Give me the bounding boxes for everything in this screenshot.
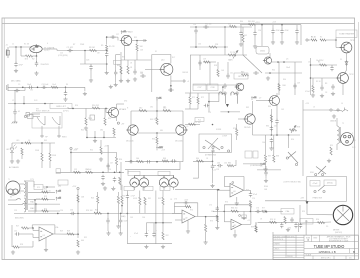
wire u5 out [242,223,251,225]
trim arrow [291,125,296,133]
terminal T9 [212,146,214,148]
wire bus y162 [125,161,180,163]
wire stage wire y50.5 [57,50,107,52]
ground G1 [14,69,18,73]
resistor R19 [242,74,249,76]
winding T100 secondary [24,198,26,212]
T100 core lines [26,182,27,210]
capacitor C25 [253,71,259,74]
resistor R71 [205,224,207,232]
wire v x250 dn [250,190,252,192]
wire r66 dn [139,205,141,214]
svg-text:Q7: Q7 [259,97,261,99]
node n35 [288,134,290,136]
svg-text:GAIN: GAIN [228,59,233,62]
svg-text:R7: R7 [73,44,75,46]
border inner top line [2,23,355,25]
wire t100 w2 [20,190,25,192]
wire c48 up [145,223,147,233]
svg-text:C30: C30 [60,210,63,212]
wire bus y137 [86,136,116,138]
svg-text:MPSA18: MPSA18 [119,108,126,111]
wire c52b dn [265,175,267,178]
wire v x121 d [120,162,122,190]
box bypass switch box [199,134,232,152]
wire x115 top [116,54,121,56]
resistor R69 [162,232,164,240]
svg-text:2K2: 2K2 [163,107,166,109]
capacitor C42 [299,223,302,229]
svg-text:RING: RING [62,137,67,139]
wire r65 dn [117,204,119,214]
wire u2 in2 [175,219,182,221]
resistor R42 [189,123,196,125]
wire r60 up [97,192,99,196]
wire fsw v2 [58,126,60,134]
wire bus y135 [253,134,301,136]
node n y108 a [72,108,74,110]
wire q5 coll [269,53,271,57]
node mic node c [65,87,67,89]
svg-text:C58: C58 [216,169,219,171]
ground G12 [223,91,227,95]
svg-text:2K2: 2K2 [100,130,103,132]
svg-text:R82: R82 [246,107,249,109]
boxed label note f2 [253,151,258,158]
wire v x212 dn [212,151,214,165]
svg-text:VU: VU [305,221,308,223]
svg-text:R52: R52 [90,149,93,151]
resistor R26 [41,153,43,161]
wire jack wire [332,109,342,112]
node n48 [217,189,219,191]
wire drop to C1 [15,47,17,63]
svg-text:22uF/16V: 22uF/16V [41,64,50,66]
capacitor C32c [171,159,177,162]
resistor R14 [242,34,244,42]
terminal T15 [315,174,317,176]
svg-text:SHT 1 OF 1: SHT 1 OF 1 [321,258,331,260]
capacitor C8 [41,86,47,89]
border inner left line [3,18,5,260]
node mic node a [22,87,24,89]
wire r71 dn [205,232,207,240]
node n23 [103,137,105,139]
wire bus y243 [127,243,172,245]
wire r8 up [104,108,106,117]
ground G11 [133,77,137,81]
node n32 [212,161,214,163]
svg-text:R96: R96 [316,219,319,221]
wire t4 wire [308,39,311,41]
transistor Q10 [176,125,188,135]
ground G17b [295,40,299,44]
potentiometer VR1a [130,175,139,187]
terminal T4 [306,39,308,41]
node n22 [94,137,96,139]
wire c22 up [254,25,256,32]
node n43 [77,233,79,235]
wire sec wire 1 [24,180,34,182]
capacitor C40 [280,223,283,229]
resistor R73 [249,201,251,208]
wire u4 fb left [223,177,225,187]
ground G28 [210,184,214,188]
node input node 1 [15,46,17,48]
ground G16 [271,40,275,44]
wire R1 to cathode [33,55,37,57]
capacitor C5b [114,70,117,76]
boxed label phantom note1 [310,181,320,187]
ground G35 [106,231,110,235]
svg-text:A2: A2 [234,224,236,227]
power arrow Vplus4 [56,190,62,194]
svg-text:R1 10: R1 10 [311,37,316,39]
wire bus y60 b [121,59,151,61]
capacitor C20 [235,83,238,89]
wire q13 emit [276,105,278,120]
svg-text:47uF: 47uF [134,233,138,235]
resistor R57 [42,210,49,212]
wire y165 link2 [234,165,236,167]
svg-text:R38: R38 [214,65,217,67]
svg-text:R27: R27 [16,226,19,228]
switch S3 lever [288,152,298,164]
node n37 [35,203,37,205]
capacitor C10 [64,91,67,97]
wire r76 up [255,222,257,225]
diagonal wire [243,55,262,73]
wire v x24 up [23,96,25,104]
wire loop left [151,55,153,93]
bypass lever 1 [205,138,220,150]
wire y110 f [303,109,330,111]
svg-text:604: 604 [81,240,84,242]
wire q8 top link [345,70,347,74]
capacitor C43 [70,212,76,215]
switch SW2a [16,199,21,200]
svg-text:R24: R24 [44,208,47,210]
resistor R53 [270,221,277,223]
wire q10 up [182,111,184,125]
resistor R51 [318,222,325,224]
ground G17 [280,40,284,44]
wire v x68 link [67,107,69,108]
svg-text:Q2 MPSA18: Q2 MPSA18 [122,31,133,34]
ground G24b [99,157,103,161]
wire bus y103 [8,103,53,105]
terminal T7 21v [70,147,72,149]
svg-text:R79: R79 [233,128,236,130]
wire q1 base link2 [106,112,108,114]
wire led dn2 [11,156,13,159]
svg-text:COMP: COMP [222,136,228,138]
node node y50 a [84,50,86,52]
resistor R61 [77,240,79,247]
wire rail x310 [310,58,312,95]
winding T101 secondary [337,126,339,144]
wire c49 up [153,223,155,233]
svg-text:Q3: Q3 [128,126,130,128]
wire r62 link3 [33,230,39,232]
terminal T5 [41,135,43,137]
wire y178 link [193,177,199,179]
terminal pin small 2 [239,215,241,217]
capacitor C50 [183,201,189,204]
svg-text:R26 10K: R26 10K [86,210,93,212]
capacitor C24 [280,29,283,35]
footswitch SW1b [52,116,60,125]
svg-text:R29: R29 [60,231,63,233]
ground G45 [235,201,239,205]
node n39 [77,213,79,215]
wire pot dn4 [173,187,175,190]
svg-text:R74: R74 [225,202,228,204]
svg-text:R99 1K: R99 1K [270,219,277,221]
wire loop y152 [71,151,117,153]
wire fb right h [197,203,199,217]
wire v x155 [155,191,157,244]
wire bus y161 [193,160,213,162]
svg-text:125M001-1 B: 125M001-1 B [318,250,335,254]
capacitor C33 [204,104,210,107]
node node y50 b [106,50,108,52]
svg-text:+9: +9 [187,81,189,83]
svg-text:ROCHESTER N.Y. 14608: ROCHESTER N.Y. 14608 [329,240,348,242]
wire top link y37 [107,36,118,38]
node n11b [281,24,283,26]
node n tail [156,161,158,163]
svg-text:Q5: Q5 [186,126,188,128]
svg-text:+: + [156,230,157,232]
wire q8 base wire [311,77,338,79]
wire v x303b [302,140,304,176]
capacitor C3 coupling [67,49,73,52]
svg-text:C41: C41 [230,73,233,75]
wire sw feed y204 [8,204,22,206]
terminal T20 [323,190,325,192]
ground G4b [114,83,118,87]
capacitor C49 [152,232,155,238]
wire reg up [335,38,337,41]
wire v x262 c [261,25,263,46]
svg-text:C74: C74 [252,198,255,200]
ground G18 [266,76,270,80]
resistor R55 [42,191,49,193]
svg-text:DIM IN INCH: DIM IN INCH [274,239,284,241]
wire bus y47 [190,46,228,48]
node node y64 [106,63,108,65]
relay arrow [226,104,229,107]
node n36 [34,199,36,201]
svg-text:R9 47K: R9 47K [109,46,116,48]
wire meter wire y215 [307,214,333,216]
svg-text:R72: R72 [201,97,204,99]
svg-text:R40: R40 [240,21,243,23]
svg-text:C35: C35 [198,44,201,46]
svg-text:R75 10K: R75 10K [194,122,201,124]
svg-text:R25: R25 [91,198,94,200]
capacitor C17 [198,60,201,66]
wire pot dn3 [163,187,165,190]
wire r9 dn [136,51,138,60]
wire c36 dn [276,124,278,135]
wire c34 dn [212,169,214,183]
node input node 2 [20,46,22,48]
svg-text:1/1: 1/1 [349,258,352,260]
footswitch SW1a [37,116,45,125]
ground G10 [126,79,130,83]
wire r65 up [117,192,119,196]
boxed label note f1 [245,151,252,158]
svg-text:.0047: .0047 [184,200,188,202]
tube V1 12AX7 [30,44,42,52]
capacitor C21 [239,31,242,37]
boxed label pot top label2 [143,186,153,190]
terminal T8 [203,146,205,148]
ground G3 [89,78,93,82]
ground G46 [233,233,237,237]
wire q12 base [238,118,243,120]
wire v x298 dn [297,222,299,232]
svg-text:R90: R90 [291,139,294,141]
resistor R54 [255,225,257,232]
svg-text:10uF: 10uF [124,221,128,223]
wire q2 out [132,40,147,42]
svg-text:R4: R4 [66,84,68,86]
svg-text:680: 680 [160,130,163,132]
wire r67 dn [144,205,146,214]
LED D2 [10,143,17,156]
svg-text:AC MAINS: AC MAINS [9,166,19,169]
node n27 [119,172,121,174]
svg-text:R81: R81 [228,162,231,164]
wire x115 v [115,55,117,72]
svg-text:J4: J4 [341,103,343,105]
wire cathode cap drop [36,56,38,63]
wire conn wire [33,116,40,118]
svg-text:+: + [130,236,131,238]
svg-text:4558: 4558 [133,198,137,200]
capacitor C4 [89,65,92,71]
svg-text:(BAL): (BAL) [121,215,126,218]
wire bus y87 ext [60,86,85,88]
ground G43 [204,240,208,244]
capacitor C5 [105,52,108,58]
ground G40 [144,245,148,249]
svg-text:R80: R80 [196,158,199,160]
boxed label pot top label1 [124,186,134,190]
wire meter wire y223 [300,222,331,223]
terminal pin small [232,182,234,184]
svg-text:2K2: 2K2 [166,235,169,237]
svg-text:(MIC/LINE): (MIC/LINE) [15,218,24,220]
wire bus y62c [272,61,303,63]
ground G20 [320,94,324,98]
wire r29 up [116,152,118,157]
wire u2 gnd [187,220,189,229]
svg-text:CHECK: CHECK [274,249,281,251]
wire v x300 [299,205,301,223]
svg-text:SCALE: SCALE [306,254,312,257]
wire t100 w1 [19,183,24,185]
resistor R25b [25,142,31,144]
meter M1 [333,205,352,224]
wire r27 dn [49,161,51,168]
svg-text:R3: R3 [325,83,327,85]
resistor R32 [119,177,121,185]
node n7 [195,26,197,28]
resistor R33 [121,196,123,204]
wire q13 base wire [256,100,268,102]
resistor R18 [249,23,256,25]
wire fsw v1 [41,126,43,134]
wire t101 up [336,118,338,126]
svg-text:TUBE HEATER: TUBE HEATER [339,33,355,36]
node n47 [205,216,207,218]
wire r47 up [265,135,267,155]
svg-text:+21V: +21V [255,22,260,24]
wire bus y93 e [185,92,223,94]
capacitor C7 [28,86,34,89]
wire u4 in2 link [219,189,230,191]
resistor R59 [77,195,79,203]
svg-text:D3: D3 [28,140,30,142]
capacitor C36 [275,119,278,125]
wire v rail x121 [120,52,122,80]
wire r27 up [49,143,51,153]
svg-text:TUBE MP STUDIO: TUBE MP STUDIO [314,244,345,249]
wire v x128 d [127,170,129,174]
svg-text:R73: R73 [210,221,213,223]
svg-text:U2: U2 [185,218,187,220]
ground G6 [83,92,87,96]
wire sec wire 1b [33,181,35,187]
svg-text:U4: U4 [233,191,235,193]
resistor R31 [86,171,93,173]
wire v x279 [278,62,280,95]
wire q12 emit [252,124,254,136]
wire v x306 dn [305,220,307,235]
svg-text:C42: C42 [244,35,247,37]
wire q3 branch [171,80,182,82]
switch S4 lever [316,166,326,174]
switch SW2b [22,203,27,204]
capacitor C38 [270,138,273,144]
wire q3 base [145,68,161,70]
wire c18 up [227,62,229,74]
svg-text:R71: R71 [192,97,195,99]
wire r28b up [100,140,102,147]
resistor R1 [26,55,33,57]
wire fb mid link [174,206,185,208]
svg-text:R14: R14 [119,159,122,161]
capacitor C34 [211,164,214,170]
svg-text:R60: R60 [283,79,286,81]
svg-text:C12 1uF: C12 1uF [85,169,91,171]
resistor R68 [162,197,164,205]
resistor R15 [228,54,236,56]
svg-text:C70: C70 [174,199,177,201]
wire v x33 g2 [32,241,34,247]
wire q9 up [130,111,132,125]
wire v x36 g [35,204,37,212]
connector J1 input jack [6,47,9,58]
wire v x35 g [34,200,36,213]
svg-text:1N4148: 1N4148 [182,72,188,74]
terminal T6 [58,135,60,137]
power arrow Vplus Q12 [251,96,257,100]
